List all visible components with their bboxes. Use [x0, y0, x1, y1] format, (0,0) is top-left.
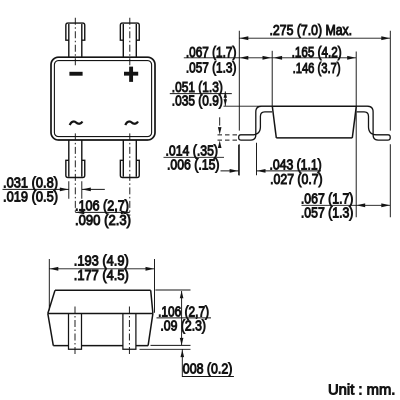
- dim .067/.057 + .165/.146 shared line: [184, 57, 356, 59]
- dim .043/.027 extension lines: [239, 143, 257, 175]
- body bottom extension line: [151, 344, 191, 346]
- dim .014/.006 dashed extensions from foot: [218, 134, 238, 136]
- body bottom line: [276, 137, 352, 139]
- svg-text:.006 (.15): .006 (.15): [167, 157, 220, 173]
- svg-text:.057 (1.3): .057 (1.3): [301, 205, 354, 221]
- dim .275 extension line left: [238, 31, 240, 176]
- right gull-wing lead: [357, 106, 391, 140]
- dim .008 up arrow and underline: [181, 350, 183, 377]
- dim .043/.027 left arrow: [221, 170, 239, 172]
- dim .106/.09 down arrow: [181, 318, 183, 346]
- dim .051/.035 vertical arrows: [224, 91, 226, 106]
- svg-text:.177 (4.5): .177 (4.5): [74, 268, 129, 284]
- body left slope: [272, 106, 276, 138]
- tilde symbol right: [125, 122, 138, 126]
- body bottom segments: [53, 345, 148, 347]
- dim .193/.177 line with arrows: [49, 268, 154, 270]
- dim .031/.019 second arrow (left-pointing): [82, 188, 105, 190]
- dim .031/.019 extension lines (pin3 edges): [69, 181, 82, 199]
- svg-text:.035 (0.9): .035 (0.9): [172, 93, 223, 109]
- dim .031/.019 leader line + right-pointing arrow: [3, 188, 69, 190]
- plus symbol: [124, 67, 138, 82]
- body top line: [272, 105, 356, 107]
- body top extension to left (thin): [224, 105, 273, 107]
- dim .275 extension line right: [389, 31, 391, 217]
- svg-text:.146 (3.7): .146 (3.7): [293, 61, 341, 77]
- dim .014/.006 separator: [164, 156, 225, 158]
- pin 4 bottom-right shaft: [123, 140, 136, 177]
- pin 2 top-right shaft: [123, 24, 136, 57]
- svg-text:.275 (7.0) Max.: .275 (7.0) Max.: [270, 23, 353, 39]
- body right slope: [352, 106, 356, 138]
- dim .067/.057 bottom separator: [302, 204, 357, 206]
- dim .165 extension lines: [271, 51, 273, 106]
- svg-text:008 (0.2): 008 (0.2): [183, 361, 233, 377]
- dim .051/.035 separator: [170, 93, 232, 95]
- svg-text:.09 (2.3): .09 (2.3): [160, 319, 206, 335]
- pin 1 centerline: [74, 18, 76, 68]
- svg-text:.019 (0.5): .019 (0.5): [3, 190, 58, 206]
- svg-text:.165 (4.2): .165 (4.2): [292, 45, 342, 61]
- tilde symbol left: [70, 122, 83, 126]
- svg-text:.067 (1.7): .067 (1.7): [186, 45, 237, 61]
- front pin right centerline: [128, 307, 130, 355]
- dim .043/.027 right arrow + separator: [257, 170, 322, 172]
- svg-text:.193 (4.9): .193 (4.9): [74, 253, 129, 269]
- svg-text:.106 (2,7): .106 (2,7): [75, 199, 129, 215]
- body top extension line right: [155, 289, 190, 291]
- minus symbol: [69, 72, 82, 76]
- pin 1 top-left collar: [66, 23, 85, 40]
- svg-text:.043 (1.1): .043 (1.1): [270, 157, 322, 173]
- pin 3 bottom-left collar: [66, 160, 85, 177]
- body outline: [48, 290, 153, 345]
- pin 1 top-left shaft: [69, 24, 82, 57]
- pin 2 centerline: [129, 18, 131, 68]
- pin 2 top-right collar: [120, 23, 139, 40]
- svg-text:.057 (1.3): .057 (1.3): [186, 61, 237, 77]
- dim .106/.090 line with outward arrows: [75, 211, 130, 213]
- dim .014/.006 arrows: [219, 117, 221, 125]
- pin 3 bottom-left shaft: [69, 140, 82, 177]
- body outline inner: [54, 61, 151, 137]
- dim .275 line with outward arrows: [239, 37, 390, 39]
- svg-text:.090 (2.3): .090 (2.3): [75, 213, 131, 229]
- body outline outer: [51, 57, 155, 140]
- left gull-wing lead: [239, 106, 273, 140]
- front pin left centerline: [74, 307, 76, 355]
- dim .067/.057 bottom line with arrows: [356, 204, 390, 206]
- dim .193/.177 extension lines: [49, 259, 154, 313]
- dim .106/.09 up arrow: [181, 291, 183, 318]
- svg-text:Unit : mm.: Unit : mm.: [328, 382, 395, 398]
- front pin right: [123, 314, 136, 350]
- pin 4 centerline + extension to dim: [129, 133, 131, 215]
- pin 3 centerline + extension to dim: [74, 133, 76, 212]
- pin 4 bottom-right collar: [120, 160, 139, 177]
- front pin left: [69, 314, 82, 350]
- pin bottom extension line: [140, 348, 191, 350]
- svg-text:.027 (0.7): .027 (0.7): [270, 172, 323, 188]
- dim .106/.09 separator: [157, 317, 212, 319]
